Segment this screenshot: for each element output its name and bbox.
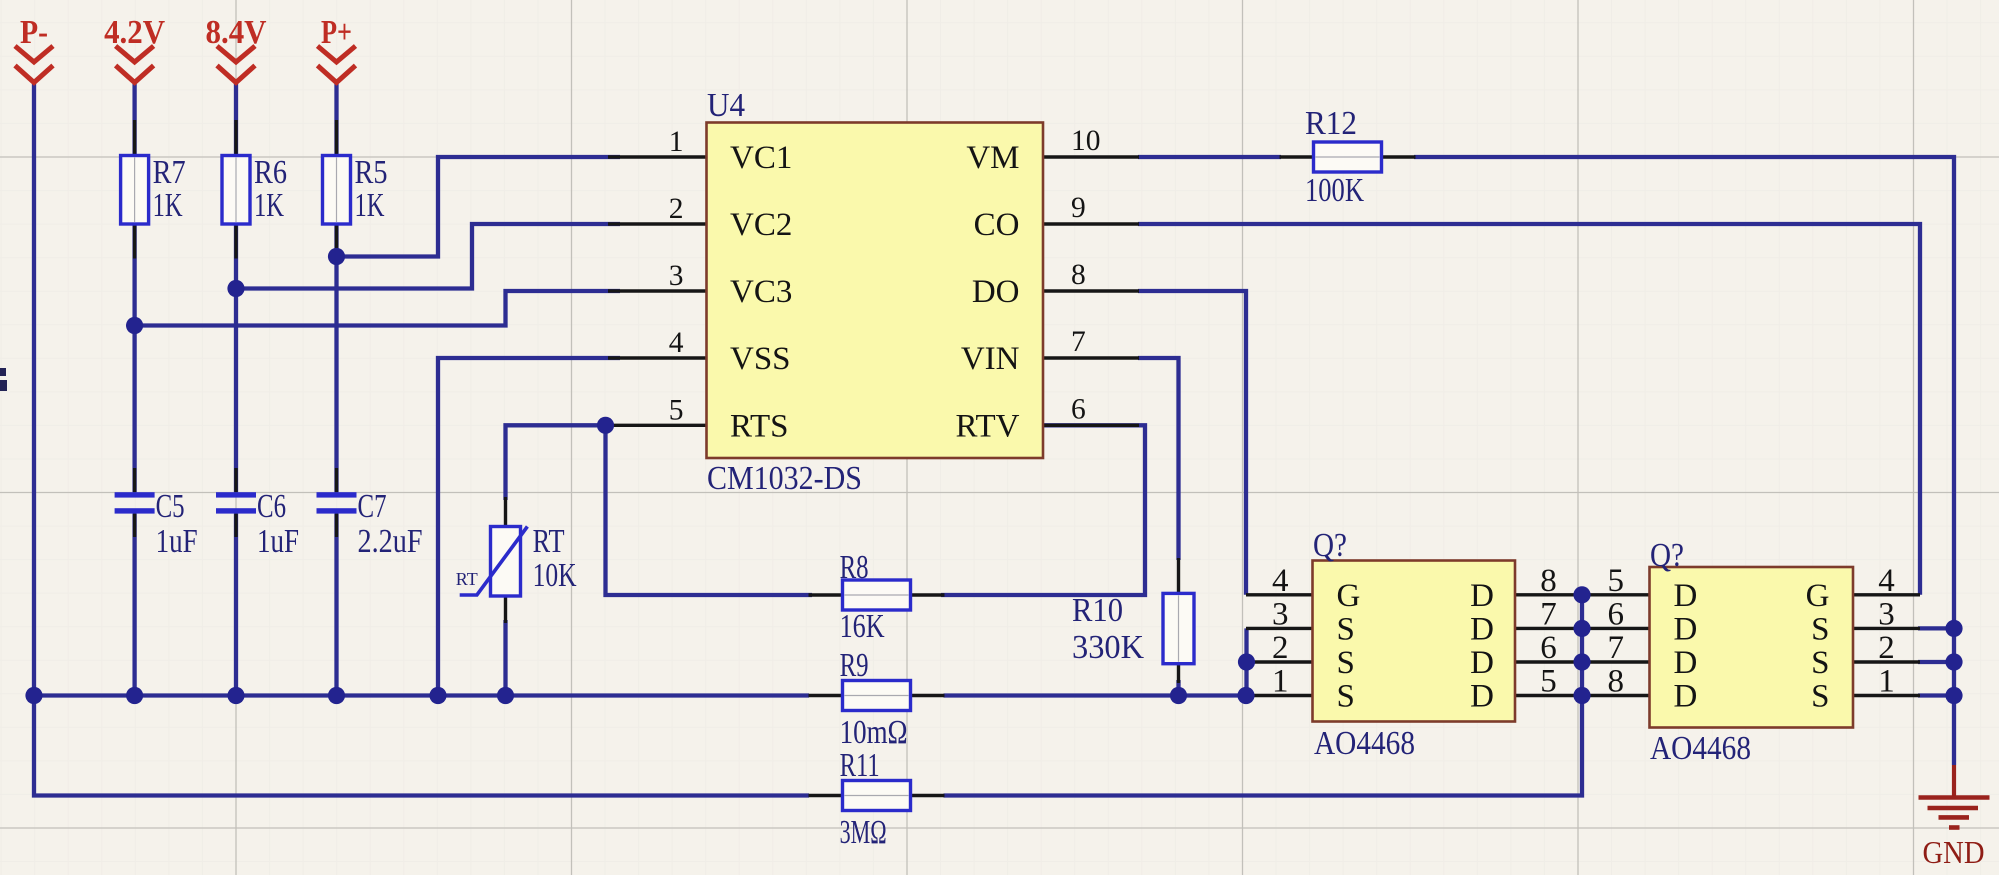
- svg-text:VC2: VC2: [730, 207, 792, 243]
- wire Q2 pin1 to bus: [1918, 693, 1954, 697]
- resistor R6: [222, 120, 287, 259]
- svg-text:5: 5: [669, 394, 684, 426]
- svg-text:5: 5: [1607, 563, 1624, 599]
- power port 4.2V: [104, 14, 165, 83]
- svg-text:VM: VM: [966, 140, 1019, 176]
- ic U4 CM1032-DS: [608, 123, 1139, 459]
- svg-text:GND: GND: [1923, 834, 1985, 870]
- svg-text:P-: P-: [20, 14, 48, 51]
- wire P- net down and to R11 left: [34, 84, 809, 796]
- svg-text:4.2V: 4.2V: [104, 14, 165, 51]
- capacitor C6: [216, 468, 299, 560]
- svg-text:1: 1: [1878, 664, 1895, 700]
- svg-text:16K: 16K: [840, 608, 885, 645]
- ground GND: [1919, 765, 1990, 870]
- svg-text:VSS: VSS: [730, 341, 791, 377]
- svg-text:1uF: 1uF: [257, 523, 299, 560]
- svg-text:4: 4: [1878, 563, 1895, 599]
- svg-text:D: D: [1470, 645, 1494, 681]
- capacitor C5: [115, 468, 198, 560]
- junction P- column / B- rail: [25, 687, 42, 704]
- junction drain bus pin6: [1573, 653, 1590, 670]
- resistor R7: [121, 120, 186, 259]
- wire Q2 pin2 to bus: [1918, 660, 1954, 664]
- svg-text:3: 3: [669, 260, 684, 292]
- svg-text:1K: 1K: [153, 187, 183, 224]
- svg-text:Q?: Q?: [1313, 527, 1347, 564]
- wire 4.2V column upper: [132, 84, 136, 492]
- svg-text:4: 4: [1272, 563, 1289, 599]
- wire Q1 source pins link: [1244, 628, 1248, 695]
- resistor R12: [1280, 105, 1416, 209]
- svg-text:8.4V: 8.4V: [206, 14, 267, 51]
- svg-text:VIN: VIN: [961, 341, 1020, 377]
- svg-text:VC3: VC3: [730, 274, 792, 310]
- svg-text:10: 10: [1071, 125, 1101, 157]
- svg-text:U4: U4: [707, 87, 745, 124]
- svg-text:6: 6: [1607, 596, 1624, 632]
- svg-text:AO4468: AO4468: [1314, 725, 1415, 762]
- svg-text:10K: 10K: [533, 557, 577, 594]
- junction C6 / B- rail: [227, 687, 244, 704]
- wire R12 right across and down to GND: [1414, 157, 1954, 765]
- svg-text:10mΩ: 10mΩ: [840, 714, 908, 751]
- wire B- rail right of R9: [944, 693, 1247, 697]
- wire VM pin10 to R12 left: [1138, 155, 1281, 159]
- svg-text:S: S: [1811, 611, 1829, 647]
- junction R5 / VC1: [328, 248, 345, 265]
- thermistor RT: [456, 497, 577, 623]
- wire P+ column lower: [334, 514, 338, 696]
- svg-text:D: D: [1470, 578, 1494, 614]
- wire VIN pin7 down to R10 top: [1138, 358, 1179, 560]
- svg-text:D: D: [1674, 611, 1698, 647]
- svg-text:C7: C7: [358, 488, 387, 525]
- wire VSS net pin4 to B- rail: [438, 358, 620, 696]
- transistor Q1 AO4468: [1246, 561, 1650, 722]
- wire R8 right up to RTV pin6: [941, 425, 1145, 595]
- svg-text:3: 3: [1272, 596, 1289, 632]
- svg-text:1: 1: [669, 126, 684, 158]
- svg-text:AO4468: AO4468: [1650, 730, 1751, 767]
- wire thermistor bottom to B- rail: [503, 620, 507, 696]
- svg-text:7: 7: [1540, 596, 1557, 632]
- junction VM bus Q2 pin1: [1945, 687, 1962, 704]
- svg-text:RTV: RTV: [955, 408, 1019, 444]
- svg-text:8: 8: [1607, 664, 1624, 700]
- svg-text:R10: R10: [1072, 592, 1123, 629]
- svg-text:8: 8: [1071, 259, 1086, 291]
- wire RTS net down to R8 left: [606, 425, 813, 595]
- wire CO pin9 across to Q2 gate: [1138, 224, 1920, 595]
- svg-text:R11: R11: [840, 747, 880, 784]
- svg-text:Q?: Q?: [1650, 537, 1684, 574]
- wire VC1 net R5 to pin1: [337, 157, 621, 257]
- junction C7 / B- rail: [328, 687, 345, 704]
- svg-text:1K: 1K: [355, 187, 385, 224]
- resistor R11: [809, 747, 945, 851]
- wire P+ column upper: [334, 84, 338, 492]
- svg-text:S: S: [1811, 645, 1829, 681]
- svg-text:8: 8: [1540, 563, 1557, 599]
- svg-text:P+: P+: [321, 14, 352, 51]
- resistor R10: [1072, 558, 1194, 683]
- svg-text:330K: 330K: [1072, 629, 1144, 666]
- svg-text:CM1032-DS: CM1032-DS: [707, 460, 862, 497]
- resistor R8: [809, 549, 945, 645]
- svg-text:1: 1: [1272, 664, 1289, 700]
- svg-text:S: S: [1337, 645, 1355, 681]
- svg-text:7: 7: [1071, 326, 1086, 358]
- svg-text:S: S: [1337, 679, 1355, 715]
- svg-text:2: 2: [1878, 630, 1895, 666]
- power port P-: [15, 14, 53, 83]
- svg-text:2: 2: [1272, 630, 1289, 666]
- svg-text:1K: 1K: [254, 187, 284, 224]
- svg-text:G: G: [1337, 578, 1361, 614]
- svg-text:R8: R8: [840, 549, 869, 586]
- svg-text:C6: C6: [257, 488, 286, 525]
- power port 8.4V: [206, 14, 267, 83]
- resistor R5: [323, 120, 388, 259]
- wire 8.4V column lower: [234, 514, 238, 696]
- junction R7 / VC3: [126, 317, 143, 334]
- node fragment at left edge: [0, 368, 7, 391]
- svg-text:D: D: [1470, 611, 1494, 647]
- svg-text:D: D: [1674, 645, 1698, 681]
- svg-text:R12: R12: [1305, 105, 1357, 142]
- svg-text:3MΩ: 3MΩ: [840, 814, 887, 851]
- svg-text:D: D: [1674, 578, 1698, 614]
- svg-text:VC1: VC1: [730, 140, 792, 176]
- junction drain bus pin5: [1573, 687, 1590, 704]
- svg-text:2: 2: [669, 193, 684, 225]
- wire RTS net to thermistor top: [506, 425, 613, 500]
- svg-text:1uF: 1uF: [156, 523, 198, 560]
- junction RTS node: [597, 417, 614, 434]
- svg-text:100K: 100K: [1305, 172, 1364, 209]
- wire 8.4V column upper: [234, 84, 238, 492]
- svg-text:6: 6: [1540, 630, 1557, 666]
- svg-text:R5: R5: [355, 154, 388, 191]
- svg-text:5: 5: [1540, 664, 1557, 700]
- junction drain bus pin8: [1573, 586, 1590, 603]
- svg-text:S: S: [1337, 611, 1355, 647]
- svg-text:RTS: RTS: [730, 408, 789, 444]
- svg-text:S: S: [1811, 679, 1829, 715]
- svg-text:R6: R6: [254, 154, 287, 191]
- junction VM bus Q2 pin3: [1945, 620, 1962, 637]
- svg-text:2.2uF: 2.2uF: [358, 523, 423, 560]
- svg-text:6: 6: [1071, 393, 1086, 425]
- junction RT / B- rail: [497, 687, 514, 704]
- svg-text:RT: RT: [456, 569, 478, 589]
- svg-text:D: D: [1674, 679, 1698, 715]
- svg-text:CO: CO: [974, 207, 1020, 243]
- wire 4.2V column lower: [132, 514, 136, 696]
- svg-text:9: 9: [1071, 192, 1086, 224]
- junction VM bus Q2 pin2: [1945, 653, 1962, 670]
- wire B- rail left of R9: [34, 693, 809, 697]
- svg-text:DO: DO: [972, 274, 1020, 310]
- junction R10 / B- rail: [1170, 687, 1187, 704]
- junction C5 / B- rail: [126, 687, 143, 704]
- wire VC3 net R7 to pin3: [135, 291, 620, 326]
- power port P+: [318, 14, 356, 83]
- svg-text:4: 4: [669, 327, 684, 359]
- junction VSS / B- rail: [429, 687, 446, 704]
- svg-text:C5: C5: [156, 488, 185, 525]
- wire DO pin8 down to Q1 gate: [1138, 291, 1246, 595]
- resistor R9: [809, 647, 945, 751]
- junction Q1 pin2 link: [1238, 653, 1255, 670]
- svg-text:G: G: [1806, 578, 1830, 614]
- wire R11 right to Q drain bus: [944, 595, 1583, 796]
- capacitor C7: [317, 468, 423, 560]
- transistor Q2 AO4468: [1650, 567, 1921, 728]
- wire Q2 pin3 to bus: [1918, 626, 1954, 630]
- junction Q1 pin1 / B- rail: [1237, 687, 1254, 704]
- svg-text:7: 7: [1607, 630, 1624, 666]
- svg-text:R9: R9: [840, 647, 869, 684]
- svg-text:3: 3: [1878, 596, 1895, 632]
- junction drain bus pin7: [1573, 620, 1590, 637]
- junction R6 / VC2: [227, 280, 244, 297]
- wire VC2 net R6 to pin2: [236, 224, 620, 289]
- svg-text:R7: R7: [153, 154, 186, 191]
- wire R10 bottom to B- rail: [1176, 680, 1180, 696]
- svg-text:D: D: [1470, 679, 1494, 715]
- svg-text:RT: RT: [533, 523, 565, 560]
